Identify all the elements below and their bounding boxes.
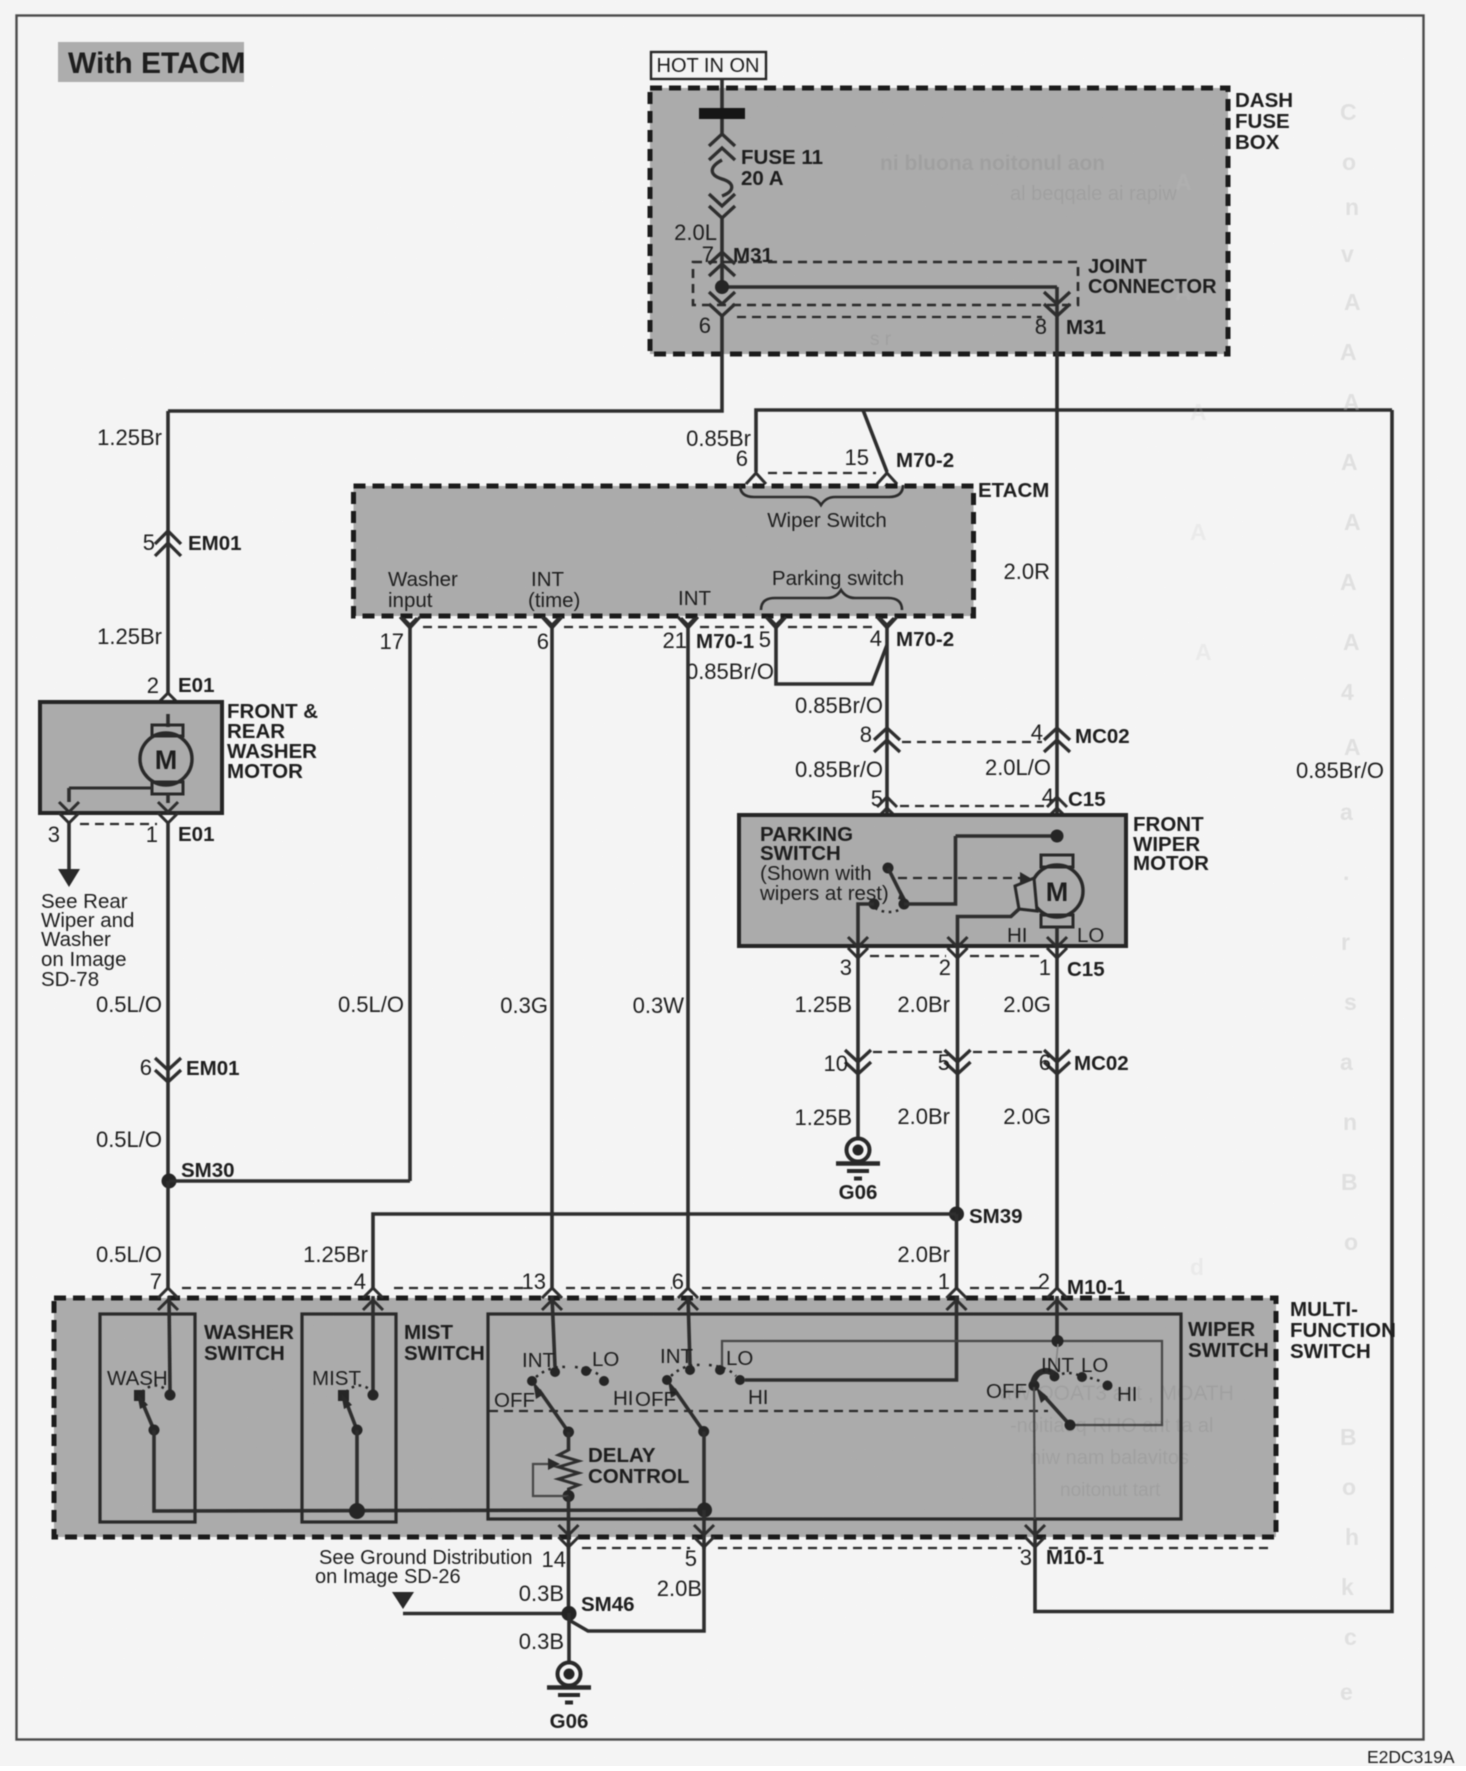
ETACM pin 21 connector M70-1 (663, 617, 755, 653)
dashed row C15 top (900, 805, 1044, 807)
wire: SM39 down to M10-1 pin 1 (955, 1214, 959, 1289)
connector C15 pin 5 (871, 786, 897, 818)
label Washer input (388, 568, 458, 612)
dashed row E01 (80, 823, 157, 825)
dashed row MC02 bottom (873, 1051, 1042, 1053)
junction at motor feed (1051, 830, 1064, 843)
wire: SM30 down to M10-1 pin 7 (166, 1181, 170, 1289)
connector C15 pin 2 (939, 937, 968, 980)
wire: M10-1 pin2 to LO bus (1055, 1296, 1059, 1341)
connector MC02 pin 10 (824, 1050, 871, 1076)
wire: second pivot down to pin 5 junction (702, 1432, 706, 1511)
wire: diagonal to M70-2 pin 15 (863, 410, 887, 472)
label FRONT & REAR WASHER MOTOR (227, 700, 318, 783)
intermittent switch contacts (527, 1296, 609, 1438)
connector M10-1 pin 4 (354, 1269, 383, 1310)
wire: ETACM pin17 washer input down (408, 628, 412, 1181)
dashed row M10-1 bottom (582, 1547, 1270, 1549)
splice SM39 (949, 1207, 964, 1222)
dashed row MC02 top (902, 741, 1042, 743)
wire: fuse to joint connector pin 7 (720, 218, 724, 292)
mist switch box (302, 1314, 396, 1522)
connector MC02 pin 8 (860, 722, 900, 752)
wire: ground distribution link to SM46 (403, 1612, 569, 1616)
wiper switch contacts (1029, 1371, 1113, 1431)
mechanical gang dashed line (489, 1410, 1048, 1412)
connector M10-1 pin 14 (542, 1525, 579, 1572)
delay control resistor (533, 1432, 579, 1502)
wire: parking sw left contact to C15 pin 3 (858, 904, 874, 1137)
low-high switch contacts (662, 1296, 745, 1437)
wire: MC02 4 to C15 4 (1055, 287, 1059, 856)
parking switch contacts (869, 863, 910, 913)
ETACM pin 4 connector M70-2 (870, 617, 954, 651)
wire: washer lever to common rail (154, 1430, 705, 1511)
wire: ETACM pin21 INT down to M10-1 6 (686, 628, 690, 1289)
wire: E01 pin1 down to EM01 pin6 (166, 823, 170, 1181)
front wiper motor box (739, 815, 1126, 946)
scan bleed-through artifacts (decorative) (1175, 99, 1361, 1705)
dashed row M70-2 top (768, 472, 876, 474)
connector M31 pin 8 (1035, 292, 1106, 339)
wire: left feed down to EM01 (166, 411, 170, 693)
junction mist rail (349, 1503, 365, 1519)
connector M10-1 pin 2 (1038, 1269, 1125, 1310)
ground G06 lower (547, 1663, 591, 1734)
label MULTI-FUNCTION SWITCH (1290, 1298, 1396, 1363)
net B: top bus wire 0.85Br (756, 410, 1392, 472)
dash fuse box (650, 88, 1228, 354)
connector C15 pin 3 (840, 937, 868, 980)
connector C15 pin 4 (1042, 784, 1106, 818)
junction LO bus pin 2 (1052, 1335, 1064, 1347)
label DASH FUSE BOX (1235, 89, 1293, 154)
front wiper motor M2 (1015, 855, 1083, 1289)
connector M10-1 pin 13 (522, 1269, 562, 1310)
note See Ground Distribution (315, 1547, 532, 1588)
mechanical link dashed (898, 872, 1032, 885)
washer switch contacts (134, 1296, 176, 1436)
splice SM46 (562, 1606, 577, 1621)
connector M31 pin 6 (699, 292, 735, 338)
dashed row M31 (737, 316, 1042, 318)
wire: M10-1 pin1 to HI contact (745, 1296, 957, 1380)
connector MC02 pin 4 (1031, 720, 1130, 752)
off-page arrow to SD-78 (58, 869, 80, 887)
washer switch box (100, 1314, 195, 1522)
connector MC02 pin 5 (938, 1050, 971, 1075)
wire: battery feed from HOT IN ON (720, 79, 724, 109)
dashed row C15 bottom (870, 955, 1044, 957)
wiper switch inner box (488, 1314, 1181, 1519)
wire: SM46 to ground (567, 1613, 571, 1662)
wire: pin 5 loop to SM46 ground lead (569, 1547, 704, 1631)
wire: M70-2 pin 5 loop to pin 4 net (776, 628, 887, 684)
connector M70-2 pin 15 (845, 445, 955, 495)
wire: faint INT tap (1055, 1344, 1058, 1374)
fuse 11 bus bar (699, 108, 745, 119)
washer motor M1 (69, 714, 192, 803)
dashed row M10-1 top (182, 1287, 1042, 1289)
connector EM01 pin 5 (143, 530, 242, 556)
connector M10-1 pin 1 (938, 1269, 967, 1310)
wire: ETACM pin6 INT time down to M10-1 13 (550, 628, 554, 1289)
connector M10-1 pin 7 (150, 1269, 178, 1310)
ETACM pin 5 (759, 617, 786, 652)
label DELAY CONTROL (588, 1444, 689, 1488)
connector MC02 pin 6 (1039, 1050, 1129, 1075)
wire: C15 pin4 junction feed (956, 834, 1058, 838)
fuse F11 symbol (709, 119, 735, 218)
junction rail to pin 5 (697, 1503, 712, 1518)
wire: junction to M10-1 pin 5 (702, 1510, 706, 1549)
front and rear washer motor box (40, 702, 222, 813)
label JOINT CONNECTOR (1088, 256, 1217, 298)
off-page arrow ground distribution (392, 1592, 414, 1609)
ground G06 upper (836, 1139, 880, 1205)
LO bus rectangle path (722, 1341, 1162, 1425)
wire: MC02 8 to C15 5 (885, 628, 889, 862)
wire: SM30 branch to ETACM pin17 wire (169, 1179, 410, 1183)
label FRONT WIPER MOTOR (1133, 813, 1209, 875)
wire: joint connector internal bus (722, 285, 1057, 289)
brace wiper switch group (740, 485, 903, 505)
junction in joint connector (715, 280, 729, 294)
connector M31 pin 7 (702, 242, 773, 276)
note See Rear Wiper (41, 890, 134, 991)
wire: mist lever to rail junction (355, 1430, 359, 1511)
title badge With ETACM (58, 42, 245, 82)
brace parking switch group (761, 590, 902, 610)
HOT IN ON tag (651, 52, 766, 79)
multi-function switch box (54, 1298, 1276, 1537)
dashed row ETACM bottom (423, 626, 875, 628)
splice SM30 (162, 1174, 177, 1189)
label MIST SWITCH (404, 1321, 485, 1365)
value label FUSE 11 20 A (741, 146, 823, 190)
connector E01 pin 3 (48, 802, 79, 847)
label WIPER SWITCH (1188, 1318, 1269, 1362)
wire: M31 pin6 down to bus elbow (168, 316, 722, 411)
connector M10-1 pin 6 (672, 1269, 698, 1310)
ETACM box (354, 486, 974, 616)
connector C15 pin 1 (1039, 937, 1105, 981)
label INT (time) (528, 568, 580, 612)
connector EM01 pin 6 (140, 1055, 240, 1082)
label PARKING SWITCH (759, 823, 889, 905)
wire: SM39 branch left to mist feed (373, 1214, 956, 1289)
wire: pin 14 to SM46 (567, 1547, 571, 1613)
wire: motor HI brush to C15 pin 2 (958, 909, 1020, 1214)
joint connector box (693, 262, 1078, 305)
wire: E01 pin3 stub to arrow (67, 823, 71, 870)
wire: parking sw right contact to motor feed (904, 836, 956, 904)
mist switch contacts (338, 1296, 379, 1436)
ETACM pin 17 (380, 617, 420, 654)
connector E01 pin 1 (146, 802, 215, 847)
wire: delay control to M10-1 pin 14 (567, 1496, 571, 1549)
ETACM pin 6 (537, 617, 562, 654)
connector M10-1 pin 3 (1020, 1525, 1104, 1570)
wire: right side 0.85Br/O to M10-1 pin 3 (1035, 410, 1392, 1612)
connector M70-2 pin 6 (736, 446, 766, 495)
label WASHER SWITCH (204, 1321, 294, 1365)
connector M10-1 pin 5 (685, 1525, 714, 1571)
wire: wiper OFF contact down to pin 3 (1033, 1387, 1036, 1520)
connector E01 pin 2 (147, 673, 215, 714)
